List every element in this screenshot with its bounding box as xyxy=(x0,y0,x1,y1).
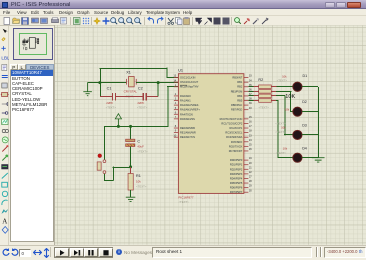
resistor R2.3 xyxy=(254,95,259,97)
pin 20 RD1/PSP1 xyxy=(244,164,248,166)
pin 29 RD6/PSP6 xyxy=(244,187,248,189)
wire ground rail vertical xyxy=(318,87,320,158)
pin 28 RD5/PSP5 xyxy=(244,182,248,184)
device list header DEVICES xyxy=(26,64,54,70)
svg-text:D3: D3 xyxy=(302,123,307,127)
svg-text:RC6/TX/CK: RC6/TX/CK xyxy=(229,144,243,148)
svg-text:22PF: 22PF xyxy=(137,101,144,105)
left mode palette xyxy=(0,26,9,245)
pin 8 RE0/AN5/RD xyxy=(174,127,178,129)
node junction right of crystal xyxy=(157,81,160,84)
svg-text:RB6/PGC: RB6/PGC xyxy=(231,103,242,107)
schematic canvas xyxy=(54,25,366,245)
resistor R2.4 xyxy=(254,100,259,102)
node VCC junction xyxy=(117,125,120,128)
No Messages text xyxy=(124,250,152,255)
svg-text:40uF: 40uF xyxy=(137,145,144,149)
wire resistor to LED D1 xyxy=(276,86,292,88)
svg-text:RC0/T1OSO/T1CKI: RC0/T1OSO/T1CKI xyxy=(220,117,243,121)
svg-text:RC3/SCK/SCL: RC3/SCK/SCL xyxy=(225,131,242,135)
svg-text:10K: 10K xyxy=(285,94,295,100)
svg-text:C2: C2 xyxy=(138,86,143,90)
capacitor C2 xyxy=(142,93,144,100)
svg-text:<TEXT>: <TEXT> xyxy=(275,130,286,134)
button (push button) xyxy=(97,154,106,174)
pin 39 RB6/PGC xyxy=(244,104,248,106)
svg-text:RD6/PSP6: RD6/PSP6 xyxy=(230,186,243,190)
svg-text:RD0/PSP0: RD0/PSP0 xyxy=(230,158,243,162)
pin 5 RA3/AN3/VREF+ xyxy=(174,109,178,111)
left panel background xyxy=(9,26,54,245)
svg-text:<TEXT>: <TEXT> xyxy=(137,106,148,110)
pin 18 RC3/SCK/SCL xyxy=(244,132,248,134)
IC U1 PIC16F877 xyxy=(178,74,243,194)
svg-text:PIC16F877: PIC16F877 xyxy=(178,195,193,199)
ground (LED rail) xyxy=(312,158,325,162)
wire junction down to cap rail xyxy=(157,83,159,97)
svg-text:RA4/T0CKI: RA4/T0CKI xyxy=(180,112,193,116)
simulation buttons xyxy=(54,247,113,259)
pin 15 RC0/T1OSO/T1CKI xyxy=(244,118,248,120)
pin 13 OSC1/CLKIN xyxy=(174,77,178,79)
pin 27 RD4/PSP4 xyxy=(244,177,248,179)
LED D3 xyxy=(293,130,302,139)
svg-text:RC7/RX/DT: RC7/RX/DT xyxy=(229,149,243,153)
app icon xyxy=(2,2,8,8)
wire vertical left riser xyxy=(99,68,101,97)
title bar xyxy=(0,0,366,9)
pin 14 OSC2/CLKOUT xyxy=(174,81,178,83)
wire button net xyxy=(113,166,131,168)
wire crystal to OSC2 xyxy=(136,82,178,84)
pin 24 RC5/SDO xyxy=(244,141,248,143)
wire resistor to LED D4 xyxy=(276,100,278,102)
svg-text:RB4: RB4 xyxy=(237,94,243,98)
wire RB3 to resistor xyxy=(248,91,253,93)
crystal X1 xyxy=(126,76,136,86)
capacitor C (electrolytic) xyxy=(126,139,135,141)
svg-text:RC2/CCP1: RC2/CCP1 xyxy=(230,126,243,130)
svg-text:U1: U1 xyxy=(178,68,183,72)
svg-text:R2: R2 xyxy=(258,78,263,82)
svg-text:RE1/AN6/WR: RE1/AN6/WR xyxy=(180,131,196,135)
pin 9 RE1/AN6/WR xyxy=(174,132,178,134)
svg-text:RA0/AN0: RA0/AN0 xyxy=(180,94,191,98)
svg-text:OSC2/CLKOUT: OSC2/CLKOUT xyxy=(180,80,199,84)
pin 40 RB7/PGD xyxy=(244,109,248,111)
svg-text:<TEXT>: <TEXT> xyxy=(277,78,288,82)
svg-text:LBL: LBL xyxy=(1,56,9,61)
menu bar xyxy=(0,9,366,16)
svg-text:D4: D4 xyxy=(302,146,307,150)
svg-text:CRYSTAL: CRYSTAL xyxy=(124,90,138,94)
svg-text:A: A xyxy=(2,218,7,226)
wire ground to crystal rail xyxy=(88,82,127,84)
resistor R1 xyxy=(129,167,131,174)
svg-text:RD7/PSP7: RD7/PSP7 xyxy=(230,190,243,194)
svg-text:C: C xyxy=(137,140,140,144)
svg-text:X1: X1 xyxy=(126,70,131,74)
resistor R2.2 xyxy=(254,91,259,93)
svg-text:22PF: 22PF xyxy=(106,101,113,105)
svg-text:10k: 10k xyxy=(285,107,290,111)
bottom bar xyxy=(0,245,366,260)
svg-text:<TEXT>: <TEXT> xyxy=(178,200,189,204)
pin 30 RD7/PSP7 xyxy=(244,191,248,193)
svg-text:RD5/PSP5: RD5/PSP5 xyxy=(230,181,243,185)
wire top rail to OSC1 xyxy=(99,68,167,70)
mirror vertical icon xyxy=(42,248,51,258)
rotate clockwise icon xyxy=(2,248,10,257)
pin 17 RC2/CCP1 xyxy=(244,127,248,129)
root sheet box xyxy=(152,247,312,258)
pin 33 RB0/INT xyxy=(244,77,248,79)
rotate anticlockwise icon xyxy=(11,248,19,257)
svg-text:D2: D2 xyxy=(302,100,307,104)
node junction left xyxy=(98,81,101,84)
pin 25 RC6/TX/CK xyxy=(244,145,248,147)
svg-text:RB0/INT: RB0/INT xyxy=(232,76,242,80)
svg-text:D1: D1 xyxy=(303,74,308,78)
svg-text:RA1/AN1: RA1/AN1 xyxy=(180,99,191,103)
svg-text:RA5/AN4/SS: RA5/AN4/SS xyxy=(180,117,195,121)
svg-text:RB2: RB2 xyxy=(237,85,243,89)
wire button top xyxy=(103,126,105,159)
wire resistor to LED D2 xyxy=(276,91,291,93)
wire cap C top lead xyxy=(129,126,131,139)
pin 19 RD0/PSP0 xyxy=(244,159,248,161)
LED D2 xyxy=(293,107,302,116)
toolbar icons xyxy=(4,17,10,24)
svg-text:C1: C1 xyxy=(107,86,112,90)
svg-text:<TEXT>: <TEXT> xyxy=(136,184,147,188)
pin 37 RB4 xyxy=(244,95,248,97)
pin 3 RA1/AN1 xyxy=(174,100,178,102)
svg-text:10k: 10k xyxy=(136,179,141,183)
pin 2 RA0/AN0 xyxy=(174,95,178,97)
svg-text:RC4/SDI/SDA: RC4/SDI/SDA xyxy=(226,135,242,139)
wire resistor to LED D3 xyxy=(276,95,285,97)
svg-text:OSC1/CLKIN: OSC1/CLKIN xyxy=(180,76,195,80)
separators xyxy=(316,247,318,257)
window buttons xyxy=(325,2,335,8)
svg-text:RC1/T1OSI/CCP2: RC1/T1OSI/CCP2 xyxy=(221,121,242,125)
svg-text:RE2/AN7/CS: RE2/AN7/CS xyxy=(180,135,195,139)
angle edit box xyxy=(19,249,31,257)
svg-text:<TEXT>: <TEXT> xyxy=(276,151,287,155)
pin 21 RD2/PSP2 xyxy=(244,168,248,170)
svg-text:RC5/SDO: RC5/SDO xyxy=(231,140,242,144)
mirror horizontal icon xyxy=(33,248,42,257)
wire MCLR rail xyxy=(104,126,168,128)
svg-text:RD4/PSP4: RD4/PSP4 xyxy=(230,176,243,180)
pin 23 RC4/SDI/SDA xyxy=(244,136,248,138)
wire RB5 to resistor xyxy=(248,100,253,102)
title text xyxy=(11,2,71,8)
pin 7 RA5/AN4/SS xyxy=(174,118,178,120)
ground (R1) xyxy=(126,197,136,201)
coordinates box xyxy=(324,247,366,258)
overview green frame xyxy=(19,33,47,55)
node R1 junction xyxy=(129,165,132,168)
svg-text:<TEXT>: <TEXT> xyxy=(137,150,148,154)
svg-text:RB1: RB1 xyxy=(237,80,243,84)
svg-text:<TEXT>: <TEXT> xyxy=(259,105,270,109)
pin 38 RB5 xyxy=(244,100,248,102)
wire LEDs to ground rail xyxy=(302,86,318,88)
svg-text:RE0/AN5/RD: RE0/AN5/RD xyxy=(180,126,195,130)
LED D1 xyxy=(293,82,302,91)
pin 22 RD3/PSP3 xyxy=(244,173,248,175)
node cap junction top xyxy=(129,125,132,128)
pin 16 RC1/T1OSI/CCP2 xyxy=(244,122,248,124)
pin 6 RA4/T0CKI xyxy=(174,113,178,115)
svg-text:R1: R1 xyxy=(136,174,141,178)
LED D4 xyxy=(293,153,302,162)
pin 4 RA2/AN2/VREF- xyxy=(174,104,178,106)
device list xyxy=(10,70,54,242)
svg-text:RD1/PSP1: RD1/PSP1 xyxy=(230,163,243,167)
svg-text:RD3/PSP3: RD3/PSP3 xyxy=(230,172,243,176)
svg-text:RB5: RB5 xyxy=(237,99,243,103)
overview preview marks xyxy=(22,38,39,50)
resistor R2.1 xyxy=(254,86,259,88)
svg-text:RD2/PSP2: RD2/PSP2 xyxy=(230,167,243,171)
svg-text:10k: 10k xyxy=(283,146,288,150)
pin 1 MCLR/Vpp/THV xyxy=(174,86,178,88)
device list header P button xyxy=(10,64,18,70)
device list header L button xyxy=(18,64,26,70)
wire RB2 to resistor xyxy=(248,86,253,88)
wire cap C bottom lead xyxy=(129,146,131,166)
svg-text:RB7/PGD: RB7/PGD xyxy=(231,108,242,112)
wire RB4 to resistor xyxy=(248,95,253,97)
pin 35 RB2 xyxy=(244,86,248,88)
left mode toolbar icons xyxy=(3,29,8,33)
power terminal VCC arrow xyxy=(115,114,121,119)
pin 36 RB3/PGM xyxy=(244,90,248,92)
ground (crystal section) xyxy=(83,83,92,96)
svg-text:RA2/AN2/VREF-: RA2/AN2/VREF- xyxy=(180,103,199,107)
message icon xyxy=(116,249,122,255)
capacitor C1 xyxy=(111,93,113,100)
pin 26 RC7/RX/DT xyxy=(244,150,248,152)
svg-text:<TEXT>: <TEXT> xyxy=(106,106,117,110)
pin 34 RB1 xyxy=(244,81,248,83)
overview window frame xyxy=(13,28,53,61)
svg-text:RB3/PGM: RB3/PGM xyxy=(231,89,243,93)
wire cap rail xyxy=(100,96,112,98)
toolbar xyxy=(0,16,366,26)
svg-text:RA3/AN3/VREF+: RA3/AN3/VREF+ xyxy=(180,108,200,112)
pin 10 RE2/AN7/CS xyxy=(174,136,178,138)
